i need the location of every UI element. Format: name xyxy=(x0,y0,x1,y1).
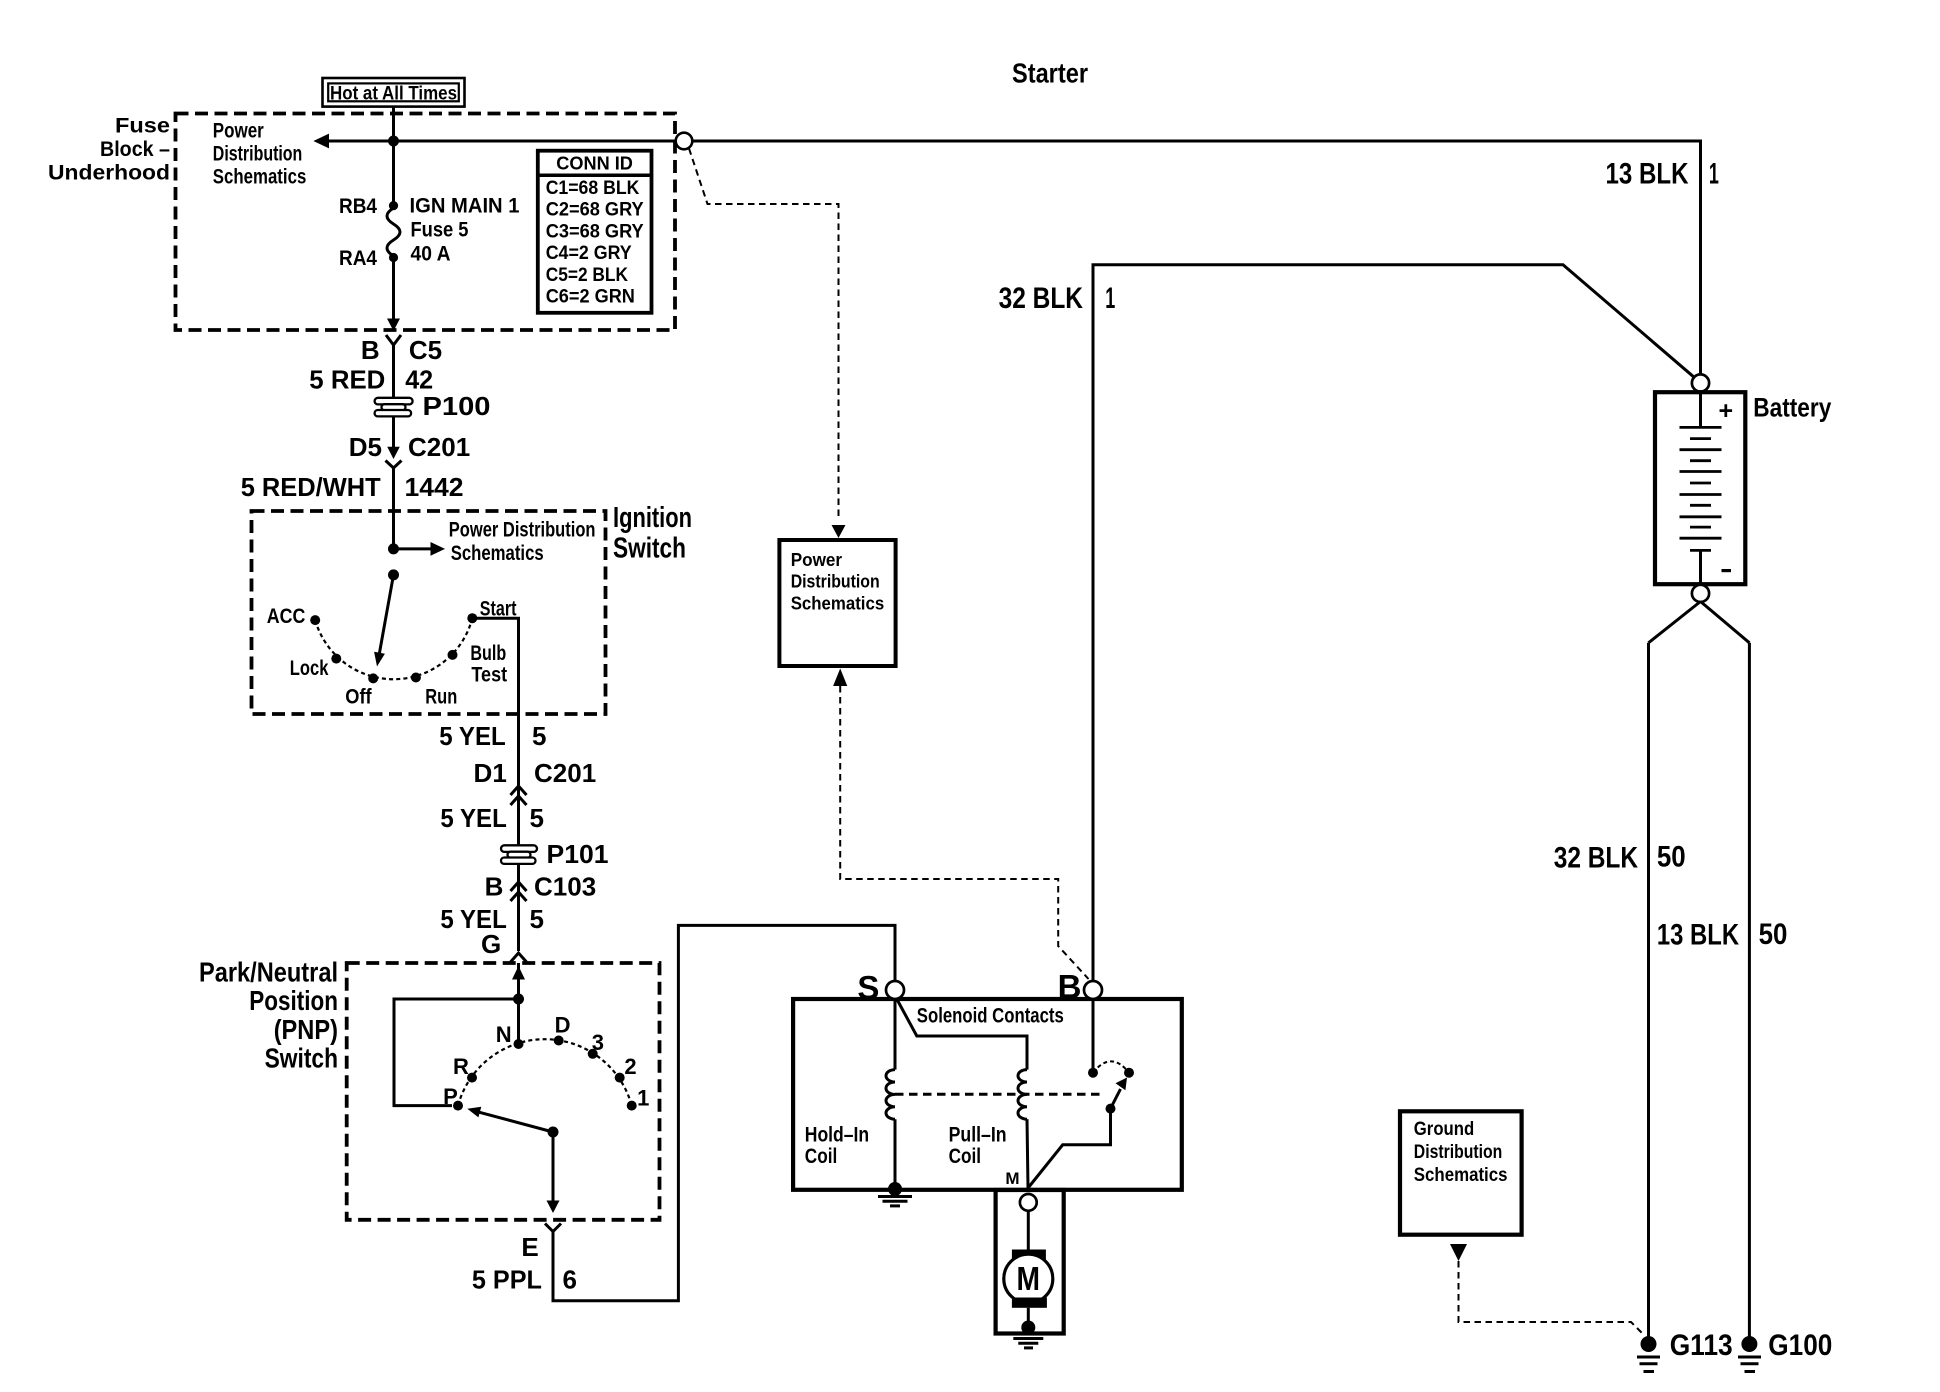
wire C5 to P100 xyxy=(392,345,395,398)
svg-text:G113: G113 xyxy=(1670,1329,1733,1362)
svg-text:C201: C201 xyxy=(534,758,596,788)
contact dot Lock xyxy=(331,654,341,664)
dashed reference from PDS box to B terminal xyxy=(840,686,1088,979)
motor M circle xyxy=(1004,1254,1053,1303)
svg-text:Coil: Coil xyxy=(949,1145,982,1168)
svg-text:Block –: Block – xyxy=(100,137,170,161)
motor brush bottom xyxy=(1012,1298,1047,1308)
svg-text:5: 5 xyxy=(530,904,544,934)
node RA4 xyxy=(389,253,398,262)
dashed mechanical link line xyxy=(895,1093,1105,1096)
battery bottom stub xyxy=(1699,550,1702,584)
svg-text:Distribution: Distribution xyxy=(1414,1141,1503,1163)
battery cells xyxy=(1680,427,1722,550)
PNP wiper pivot dot xyxy=(548,1127,559,1138)
svg-text:5 PPL: 5 PPL xyxy=(472,1265,542,1295)
svg-text:2: 2 xyxy=(624,1054,636,1079)
motor brush top xyxy=(1012,1250,1046,1260)
svg-text:50: 50 xyxy=(1657,841,1686,874)
svg-text:Fuse 5: Fuse 5 xyxy=(411,218,469,242)
svg-text:C6=2 GRN: C6=2 GRN xyxy=(546,287,635,308)
arrow down into PDS box xyxy=(832,525,846,538)
svg-text:Off: Off xyxy=(345,686,372,709)
svg-text:Distribution: Distribution xyxy=(213,141,302,165)
svg-text:50: 50 xyxy=(1759,918,1788,951)
contact dot Bulb Test xyxy=(448,650,458,660)
svg-text:R: R xyxy=(453,1054,469,1079)
starter motor box xyxy=(996,1190,1064,1334)
svg-text:P: P xyxy=(443,1084,458,1109)
wire E to solenoid S xyxy=(553,925,895,1300)
label Park/Neutral Position (PNP) Switch xyxy=(199,956,338,1073)
svg-text:5 YEL: 5 YEL xyxy=(440,803,507,833)
node RB4 xyxy=(389,201,398,210)
svg-text:N: N xyxy=(496,1022,512,1047)
terminal S circle xyxy=(886,981,904,999)
svg-text:Pull–In: Pull–In xyxy=(949,1124,1007,1147)
svg-text:Schematics: Schematics xyxy=(1414,1164,1508,1186)
wire P100 to C201 xyxy=(392,416,395,447)
svg-text:Ground: Ground xyxy=(1414,1118,1474,1140)
svg-text:Position: Position xyxy=(249,985,338,1016)
pull-in coil xyxy=(1018,1070,1027,1120)
svg-text:B: B xyxy=(1058,968,1082,1005)
junction dot ignition feed xyxy=(388,543,399,554)
svg-text:C103: C103 xyxy=(534,872,596,902)
svg-text:13 BLK: 13 BLK xyxy=(1657,919,1740,952)
Solenoid box xyxy=(793,999,1182,1190)
svg-text:1442: 1442 xyxy=(405,472,464,502)
Hot at All Times box xyxy=(323,78,465,107)
svg-text:Hot at All Times: Hot at All Times xyxy=(330,83,457,105)
svg-text:P101: P101 xyxy=(547,839,609,869)
svg-text:IGN MAIN 1: IGN MAIN 1 xyxy=(410,194,520,218)
ground at hold-in coil xyxy=(888,1182,902,1196)
svg-text:Schematics: Schematics xyxy=(213,165,307,189)
svg-text:32 BLK: 32 BLK xyxy=(1554,842,1639,875)
hold-in coil xyxy=(886,1070,895,1120)
svg-text:Power Distribution: Power Distribution xyxy=(449,518,596,541)
svg-text:1: 1 xyxy=(637,1086,649,1111)
svg-text:13 BLK: 13 BLK xyxy=(1606,157,1690,190)
fixed contact dot (B side) xyxy=(1088,1068,1098,1078)
contact arm to M xyxy=(1028,1109,1111,1188)
svg-text:5: 5 xyxy=(530,803,544,833)
moving contact dot xyxy=(1106,1104,1116,1114)
svg-text:Switch: Switch xyxy=(613,533,686,565)
Ground Distribution Schematics box xyxy=(1400,1111,1522,1234)
battery terminal circle bottom xyxy=(1692,585,1709,602)
wire pull-in coil to M xyxy=(1027,1119,1028,1188)
svg-text:D5: D5 xyxy=(349,432,382,462)
svg-text:Run: Run xyxy=(425,686,457,709)
fuse IGN MAIN 1 Fuse 5 40A squiggle xyxy=(387,208,400,256)
wire junction to P contact xyxy=(394,999,519,1106)
svg-text:S: S xyxy=(857,969,879,1006)
svg-text:Fuse: Fuse xyxy=(115,114,170,138)
connector G chevron above PNP box xyxy=(511,953,527,962)
svg-text:D1: D1 xyxy=(474,758,507,788)
battery box xyxy=(1655,392,1745,584)
svg-text:Starter: Starter xyxy=(1012,58,1088,89)
connector C201 arrow and chevron xyxy=(387,447,400,459)
wire from Start down xyxy=(472,618,518,784)
arrow down at PNP box bottom xyxy=(547,1201,560,1214)
junction dot PNP xyxy=(513,994,524,1005)
dashed reference GDS to G113 xyxy=(1459,1261,1644,1335)
terminal M circle xyxy=(1020,1194,1037,1211)
svg-text:B: B xyxy=(485,872,504,902)
junction dot 2 xyxy=(388,569,399,580)
svg-text:Schematics: Schematics xyxy=(791,594,885,614)
svg-text:P100: P100 xyxy=(423,391,491,421)
PNP wiper arm arrow to P xyxy=(480,1112,554,1132)
svg-text:G: G xyxy=(481,929,501,959)
Ignition Switch dashed box xyxy=(252,511,606,714)
contact dot N xyxy=(514,1039,524,1049)
moving contact arrow xyxy=(1111,1089,1121,1109)
terminal B circle xyxy=(1084,981,1102,999)
contact dot Off xyxy=(368,673,378,683)
arrow below GDS box xyxy=(1450,1244,1467,1261)
label Power Distribution Schematics (fuse block) xyxy=(213,118,307,188)
contact dot Run xyxy=(411,673,421,683)
svg-text:Power: Power xyxy=(213,118,264,142)
svg-text:C3=68 GRY: C3=68 GRY xyxy=(546,221,644,242)
Fuse Block - Underhood dashed box xyxy=(176,114,676,331)
svg-text:Underhood: Underhood xyxy=(48,160,170,184)
svg-text:C1=68 BLK: C1=68 BLK xyxy=(546,178,640,199)
svg-text:42: 42 xyxy=(405,365,433,395)
ground at motor xyxy=(1021,1321,1035,1335)
arrow right to Power Distribution Schematics xyxy=(394,547,432,550)
wire S to hold-in coil xyxy=(894,999,897,1070)
svg-text:Battery: Battery xyxy=(1753,392,1831,422)
svg-text:5 RED/WHT: 5 RED/WHT xyxy=(241,472,381,502)
svg-text:Test: Test xyxy=(471,664,507,687)
ground G113 xyxy=(1637,1329,1733,1372)
contact dot D xyxy=(554,1036,564,1046)
svg-text:C201: C201 xyxy=(408,432,470,462)
svg-text:Power: Power xyxy=(791,550,842,570)
wire pivot down to E xyxy=(552,1132,555,1201)
contact dot 3 xyxy=(588,1049,598,1059)
svg-text:Ignition: Ignition xyxy=(613,502,692,534)
svg-text:C5=2 BLK: C5=2 BLK xyxy=(546,265,629,286)
switch wiper arrow to Off xyxy=(379,575,394,656)
svg-text:3: 3 xyxy=(592,1030,604,1055)
svg-text:M: M xyxy=(1005,1169,1019,1188)
dashed arc of ignition switch positions xyxy=(315,618,472,679)
ground G100 xyxy=(1738,1329,1832,1372)
arrow up into PDS box bottom xyxy=(833,669,847,687)
svg-text:6: 6 xyxy=(563,1265,577,1295)
battery top stub xyxy=(1699,394,1702,427)
battery minus sign xyxy=(1722,569,1732,572)
wire to battery top right xyxy=(692,141,1700,374)
svg-text:C5: C5 xyxy=(409,335,442,365)
connector C103 double chevron xyxy=(511,882,527,891)
Park/Neutral Position (PNP) Switch dashed box xyxy=(347,963,660,1220)
svg-text:RB4: RB4 xyxy=(339,194,377,218)
svg-text:+: + xyxy=(1719,397,1734,425)
svg-text:Bulb: Bulb xyxy=(470,642,506,665)
svg-text:Solenoid Contacts: Solenoid Contacts xyxy=(917,1005,1064,1028)
contact dot ACC xyxy=(310,615,320,625)
dashed reference from circle to PDS box xyxy=(689,149,839,521)
connector E chevron xyxy=(545,1224,561,1232)
wire into N contact xyxy=(517,963,520,1044)
contact dot P xyxy=(453,1101,463,1111)
wire C201 to ignition switch xyxy=(392,468,395,550)
wire battery to G113 xyxy=(1647,643,1650,1344)
label Fuse Block - Underhood xyxy=(48,114,170,185)
wire split Y below battery xyxy=(1649,602,1701,643)
svg-text:RA4: RA4 xyxy=(339,246,377,270)
wire M terminal to motor xyxy=(1027,1211,1030,1250)
contact dot R xyxy=(467,1073,477,1083)
splice P100 xyxy=(375,398,413,417)
svg-text:C2=68 GRY: C2=68 GRY xyxy=(546,200,644,221)
wire 32 BLK from top to B terminal xyxy=(1093,265,1694,982)
dashed arc of PNP positions xyxy=(458,1039,632,1105)
wire from Hot at All Times down xyxy=(392,107,395,207)
dashed contact arc xyxy=(1093,1061,1129,1072)
arrow down at fuse box bottom xyxy=(387,319,400,332)
svg-text:1: 1 xyxy=(1105,282,1115,315)
battery terminal circle top xyxy=(1692,374,1709,391)
svg-text:C4=2 GRY: C4=2 GRY xyxy=(546,243,632,264)
svg-text:Park/Neutral: Park/Neutral xyxy=(199,956,338,987)
svg-text:Switch: Switch xyxy=(265,1043,338,1074)
connector C201 double chevron xyxy=(511,786,527,795)
wire motor to ground xyxy=(1027,1308,1030,1328)
connector C5 fork xyxy=(386,335,401,345)
arrow left to Power Distribution Schematics xyxy=(313,134,329,149)
label Power Distribution Schematics (ignition) xyxy=(449,518,596,565)
svg-text:E: E xyxy=(521,1232,538,1262)
svg-text:M: M xyxy=(1017,1260,1041,1297)
svg-text:5: 5 xyxy=(532,721,546,751)
svg-text:ACC: ACC xyxy=(267,605,306,628)
contact dot 2 xyxy=(615,1073,625,1083)
svg-text:Hold–In: Hold–In xyxy=(805,1124,869,1147)
svg-text:G100: G100 xyxy=(1768,1329,1832,1362)
wire S to pull-in coil xyxy=(897,999,1028,1070)
svg-text:CONN ID: CONN ID xyxy=(556,154,633,174)
svg-text:(PNP): (PNP) xyxy=(274,1014,338,1045)
svg-text:40 A: 40 A xyxy=(411,242,451,266)
svg-text:D: D xyxy=(555,1013,571,1038)
splice P101 xyxy=(501,845,537,864)
fixed contact dot 2 xyxy=(1124,1068,1134,1078)
arrow up into PNP box xyxy=(512,966,525,980)
svg-text:5 RED: 5 RED xyxy=(309,365,385,395)
wire horizontal hot feed xyxy=(328,140,676,143)
svg-text:B: B xyxy=(361,335,380,365)
wire P101 down xyxy=(517,864,520,951)
Power Distribution Schematics box xyxy=(779,540,895,666)
svg-text:1: 1 xyxy=(1709,157,1719,190)
connector circle at fuse box edge xyxy=(676,133,693,150)
svg-text:Schematics: Schematics xyxy=(451,542,544,565)
svg-text:Lock: Lock xyxy=(290,657,329,680)
wire battery to G100 xyxy=(1748,643,1751,1344)
contact dot Start xyxy=(467,613,477,623)
wire to P101 xyxy=(517,784,520,846)
wire RA4 down to box edge xyxy=(392,258,395,320)
svg-text:Coil: Coil xyxy=(805,1145,838,1168)
svg-text:Distribution: Distribution xyxy=(791,572,880,592)
wire hold-in coil to ground xyxy=(894,1119,897,1189)
label Ignition Switch xyxy=(613,502,692,564)
wire B down to fixed contact xyxy=(1092,999,1095,1073)
junction dot at hot wire xyxy=(388,136,399,147)
svg-text:32 BLK: 32 BLK xyxy=(999,282,1084,315)
contact dot 1 xyxy=(627,1101,637,1111)
svg-text:5 YEL: 5 YEL xyxy=(439,721,506,751)
CONN ID table xyxy=(538,151,652,313)
